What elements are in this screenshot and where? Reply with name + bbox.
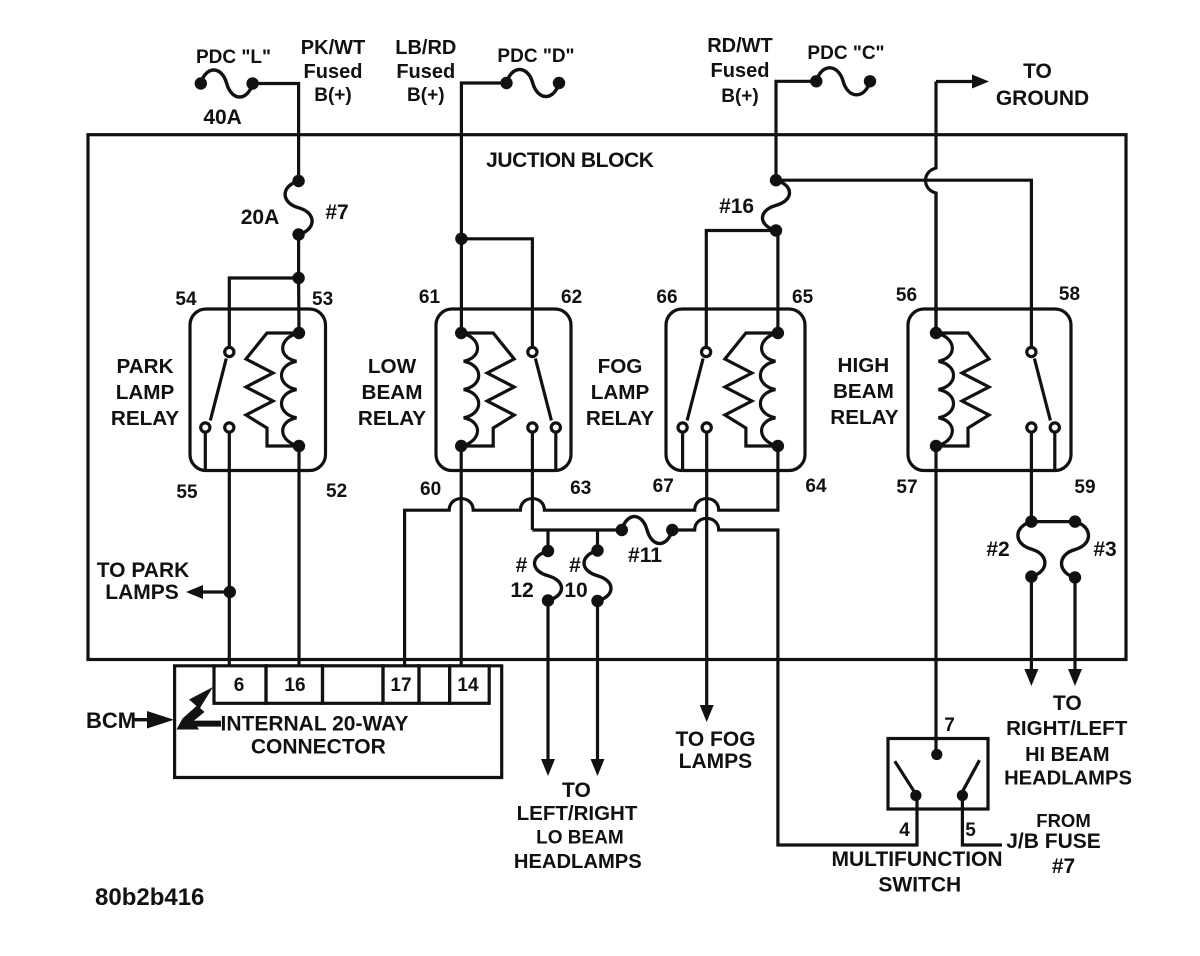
fuse #12 — [535, 545, 562, 607]
wire low pin 60 to connector 14 — [460, 446, 463, 666]
label pin 60 — [420, 479, 441, 500]
arrow lo beam left — [541, 759, 555, 776]
park relay coil — [246, 327, 305, 452]
svg-text:17: 17 — [390, 675, 411, 696]
label PDC L — [196, 47, 271, 68]
svg-text:#2: #2 — [986, 538, 1009, 561]
park relay contact out — [225, 423, 234, 432]
svg-text:#11: #11 — [628, 544, 662, 567]
svg-text:HIGH: HIGH — [838, 354, 890, 377]
svg-text:B(+): B(+) — [407, 85, 444, 106]
svg-text:6: 6 — [234, 675, 245, 696]
low beam contact dead — [551, 423, 560, 471]
label pin 52 — [326, 481, 347, 502]
high beam switch common — [1027, 347, 1036, 356]
node park feed — [292, 272, 304, 284]
svg-text:LO BEAM: LO BEAM — [536, 828, 624, 849]
label pin 5 — [965, 820, 976, 841]
label FROM J/B FUSE #7 — [1006, 810, 1101, 878]
arrow to fog lamps — [700, 705, 714, 722]
label HIGH BEAM RELAY — [830, 354, 898, 429]
svg-text:66: 66 — [656, 287, 677, 308]
svg-text:BEAM: BEAM — [833, 380, 894, 403]
svg-text:HEADLAMPS: HEADLAMPS — [1004, 768, 1132, 790]
svg-text:64: 64 — [805, 476, 827, 497]
wire PDC L fuse to junction block — [253, 84, 299, 182]
svg-text:57: 57 — [896, 477, 917, 498]
label PARK LAMP RELAY — [111, 355, 179, 430]
label TO GROUND — [996, 60, 1089, 110]
multifunction switch box — [888, 739, 988, 810]
fog relay box — [666, 309, 805, 471]
label pin 67 — [653, 476, 674, 497]
label 40A — [203, 106, 242, 129]
high beam switch blade — [1034, 359, 1050, 421]
svg-text:TO PARK: TO PARK — [97, 559, 190, 582]
fog relay switch common — [702, 347, 711, 356]
svg-text:#3: #3 — [1093, 538, 1116, 561]
label pin 56 — [896, 285, 917, 306]
svg-text:BCM: BCM — [86, 708, 136, 733]
svg-text:J/B FUSE: J/B FUSE — [1006, 830, 1101, 853]
wire #16 to fog pin 66 — [706, 231, 778, 348]
stem fuse #10 — [596, 530, 599, 551]
svg-text:55: 55 — [176, 482, 198, 503]
svg-text:LAMPS: LAMPS — [105, 581, 179, 604]
svg-text:#: # — [516, 554, 528, 577]
svg-text:TO FOG: TO FOG — [675, 728, 755, 751]
wire high pin 57 to multifunction pin 7 — [934, 446, 937, 754]
label 80b2b416 — [95, 884, 204, 911]
multifunction blade right — [963, 760, 980, 791]
label #7 — [325, 201, 348, 224]
svg-text:10: 10 — [564, 579, 587, 602]
arrow hi beam right — [1068, 669, 1082, 686]
fuse PDC L 40A — [195, 70, 259, 97]
svg-text:12: 12 — [510, 579, 533, 602]
svg-text:LEFT/RIGHT: LEFT/RIGHT — [517, 802, 638, 825]
svg-text:JUCTION BLOCK: JUCTION BLOCK — [486, 149, 654, 172]
fuse #3 — [1062, 515, 1089, 583]
wire pin 5 to J/B fuse — [962, 796, 1002, 846]
wire fuse #3 to hi beam lamps — [1073, 578, 1076, 671]
high beam contact dead — [1050, 423, 1059, 471]
svg-text:GROUND: GROUND — [996, 87, 1089, 110]
wire ground line to high pin 56 — [934, 193, 937, 333]
fuse PDC C — [810, 68, 876, 95]
junction block outline — [88, 135, 1126, 660]
fog relay coil — [725, 327, 784, 452]
lower bus with fuse #11 to multifunction switch — [532, 517, 917, 846]
svg-text:#16: #16 — [719, 195, 754, 218]
fog relay contact dead — [678, 423, 687, 471]
label pin 54 — [175, 289, 197, 310]
multifunction pin 4 node — [910, 790, 921, 801]
multifunction blade left — [895, 761, 915, 792]
multifunction pin 7 node — [931, 749, 942, 760]
svg-text:PARK: PARK — [116, 355, 173, 378]
label JUCTION BLOCK — [486, 149, 654, 172]
low beam switch common — [528, 347, 537, 356]
svg-text:67: 67 — [653, 476, 674, 497]
label pin 7 — [944, 715, 955, 736]
label TO RIGHT/LEFT HI BEAM HEADLAMPS — [1004, 692, 1132, 790]
svg-text:61: 61 — [419, 287, 441, 308]
svg-text:7: 7 — [944, 715, 955, 736]
wire to park lamps arrow — [186, 585, 230, 599]
svg-text:59: 59 — [1074, 477, 1095, 498]
label TO PARK LAMPS — [97, 559, 190, 604]
high beam contact 59 — [1027, 423, 1036, 432]
label pin 65 — [792, 287, 814, 308]
svg-text:SWITCH: SWITCH — [878, 874, 961, 897]
label LB/RD Fused B(+) — [395, 37, 456, 106]
svg-text:BEAM: BEAM — [362, 381, 423, 404]
wire node to park pin 53 — [297, 278, 301, 333]
upper bus connector17 to fog pin64 — [405, 452, 778, 666]
wire park lamps feed — [228, 432, 231, 666]
label 20A — [241, 206, 280, 229]
low beam contact 63 — [528, 423, 537, 432]
svg-text:MULTIFUNCTION: MULTIFUNCTION — [831, 848, 1002, 871]
svg-text:RIGHT/LEFT: RIGHT/LEFT — [1006, 717, 1128, 740]
label PDC D — [497, 46, 574, 67]
svg-text:#7: #7 — [1052, 855, 1075, 878]
svg-text:B(+): B(+) — [314, 85, 351, 106]
svg-text:FOG: FOG — [598, 355, 643, 378]
svg-text:4: 4 — [899, 820, 910, 841]
low beam relay box — [436, 309, 571, 471]
wire node to park pin 54 — [229, 278, 298, 347]
svg-text:Fused: Fused — [396, 61, 455, 83]
label pin 64 — [805, 476, 827, 497]
wire node to low pin 61 — [460, 239, 463, 333]
svg-text:62: 62 — [561, 287, 582, 308]
label #3 — [1093, 538, 1116, 561]
label pin 55 — [176, 482, 198, 503]
arrow hi beam left — [1024, 669, 1038, 686]
label pin 66 — [656, 287, 677, 308]
label TO FOG LAMPS — [675, 728, 755, 773]
svg-text:20A: 20A — [241, 206, 280, 229]
svg-text:16: 16 — [284, 675, 305, 696]
svg-text:PDC "D": PDC "D" — [497, 46, 574, 67]
fuse #10 — [584, 544, 611, 607]
label #10 — [564, 554, 587, 602]
arrow to ground — [972, 75, 989, 89]
label RD/WT Fused B(+) — [707, 35, 773, 107]
svg-text:RD/WT: RD/WT — [707, 35, 773, 57]
label pin 53 — [312, 289, 333, 310]
svg-text:56: 56 — [896, 285, 917, 306]
label BCM — [86, 708, 136, 733]
svg-text:#: # — [569, 554, 581, 577]
fuse #16 — [763, 174, 790, 237]
wire to ground with hop over node — [926, 82, 973, 327]
svg-text:PK/WT: PK/WT — [301, 37, 365, 59]
park relay switch blade — [210, 359, 226, 421]
svg-text:FROM: FROM — [1036, 810, 1090, 831]
wire fuse #2 to hi beam lamps — [1030, 577, 1033, 670]
label CONNECTOR — [251, 736, 386, 759]
wire RD/WT feed into block — [776, 81, 816, 180]
svg-text:14: 14 — [457, 675, 479, 696]
high beam relay coil — [930, 327, 989, 452]
label INTERNAL 20-WAY — [221, 713, 409, 736]
bolt arrow to connector — [177, 687, 222, 730]
wire fuse #12 to lo beam lamps — [546, 601, 549, 761]
svg-text:60: 60 — [420, 479, 441, 500]
park relay switch common — [225, 347, 234, 356]
svg-text:TO: TO — [1053, 692, 1082, 715]
svg-text:LAMP: LAMP — [591, 381, 650, 404]
svg-text:54: 54 — [175, 289, 197, 310]
label LOW BEAM RELAY — [358, 355, 426, 430]
label cell 17 — [390, 675, 411, 696]
svg-text:40A: 40A — [203, 106, 242, 129]
svg-text:Fused: Fused — [711, 60, 770, 82]
label #11 — [628, 544, 662, 567]
svg-text:RELAY: RELAY — [830, 406, 898, 429]
label #16 — [719, 195, 754, 218]
svg-text:53: 53 — [312, 289, 333, 310]
label pin 4 — [899, 820, 910, 841]
label FOG LAMP RELAY — [586, 355, 654, 430]
stem fuse #12 — [546, 530, 549, 551]
svg-text:CONNECTOR: CONNECTOR — [251, 736, 386, 759]
node to park lamps — [224, 586, 236, 598]
svg-text:LOW: LOW — [368, 355, 417, 378]
arrow BCM — [134, 711, 174, 729]
fuse #2 — [1018, 515, 1045, 582]
link fuse #2 #3 — [1031, 520, 1075, 523]
svg-text:HI BEAM: HI BEAM — [1025, 744, 1109, 766]
svg-text:5: 5 — [965, 820, 976, 841]
svg-text:52: 52 — [326, 481, 347, 502]
high beam relay box — [908, 309, 1071, 471]
label pin 61 — [419, 287, 441, 308]
wire low pin 63 to lower bus — [531, 432, 534, 530]
label MULTIFUNCTION SWITCH — [831, 848, 1002, 897]
label pin 63 — [570, 478, 591, 499]
svg-text:RELAY: RELAY — [111, 407, 179, 430]
wire park pin 52 to connector 16 — [297, 446, 300, 666]
svg-text:LAMP: LAMP — [116, 381, 175, 404]
label cell 14 — [457, 675, 479, 696]
wire high pin 59 to fuses — [1030, 432, 1033, 521]
wire LB/RD feed into block — [461, 83, 506, 239]
wire node to low pin 62 — [461, 239, 532, 348]
label pin 59 — [1074, 477, 1095, 498]
fog relay contact 67 — [702, 423, 711, 432]
wire ground bus to high pin 58 — [776, 180, 1031, 347]
svg-text:B(+): B(+) — [721, 86, 758, 107]
fuse #7 20A — [285, 175, 312, 241]
svg-text:PDC "C": PDC "C" — [807, 43, 884, 64]
svg-text:TO: TO — [562, 779, 591, 802]
fuse PDC D — [500, 70, 565, 97]
label TO LEFT/RIGHT LO BEAM HEADLAMPS — [514, 779, 642, 873]
label pin 58 — [1059, 284, 1080, 305]
wire fog pin 67 to fog lamps — [705, 432, 708, 706]
label pin 57 — [896, 477, 917, 498]
wire fuse #10 to lo beam lamps — [596, 601, 599, 760]
low beam switch blade — [535, 359, 551, 421]
svg-text:63: 63 — [570, 478, 591, 499]
wire #16 to fog pin 65 — [776, 231, 779, 334]
wire fuse #7 to node — [297, 235, 300, 279]
label #12 — [510, 554, 533, 602]
label pin 62 — [561, 287, 582, 308]
svg-text:RELAY: RELAY — [586, 407, 654, 430]
svg-text:Fused: Fused — [304, 61, 363, 83]
label cell 6 — [234, 675, 245, 696]
label PDC C — [807, 43, 884, 64]
svg-text:PDC "L": PDC "L" — [196, 47, 271, 68]
node LB/RD split — [455, 233, 467, 245]
multifunction pin 5 node — [957, 790, 968, 801]
svg-text:LAMPS: LAMPS — [679, 750, 753, 773]
svg-text:RELAY: RELAY — [358, 407, 426, 430]
svg-text:LB/RD: LB/RD — [395, 37, 456, 59]
park relay box — [190, 309, 326, 471]
low beam relay coil — [455, 327, 514, 452]
label #2 — [986, 538, 1009, 561]
arrow lo beam right — [591, 759, 605, 776]
internal 20-way connector outline — [175, 666, 502, 778]
svg-text:65: 65 — [792, 287, 814, 308]
fog relay switch blade — [687, 359, 703, 421]
label cell 16 — [284, 675, 305, 696]
svg-text:80b2b416: 80b2b416 — [95, 884, 204, 911]
svg-text:HEADLAMPS: HEADLAMPS — [514, 851, 642, 873]
park relay contact 55 — [201, 423, 210, 471]
svg-text:58: 58 — [1059, 284, 1080, 305]
svg-text:#7: #7 — [325, 201, 348, 224]
svg-text:INTERNAL 20-WAY: INTERNAL 20-WAY — [221, 713, 409, 736]
svg-text:TO: TO — [1023, 60, 1052, 83]
label PK/WT Fused B(+) — [301, 37, 365, 106]
